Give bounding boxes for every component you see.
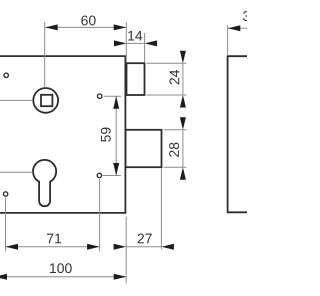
follower circle [33,88,58,113]
dim 24 text [169,70,179,84]
dim 71 right arrow [87,244,100,250]
dim 30 arrow [228,25,241,31]
euro cylinder profile [33,160,56,206]
dim 27 line [126,246,161,248]
dim 24 line [182,63,184,95]
dim 14 text [128,31,142,41]
dim 71 text [47,234,61,244]
dim 59 line [115,96,117,175]
dim 59 extension top [104,95,121,97]
dim 60 text [81,16,95,26]
dim 60 left arrow [45,24,58,30]
cylinder horizontal centerline [0,171,33,173]
dim 28 bottom arrow [180,167,186,180]
dim 28 top arrow [180,117,186,130]
dim 59 text [101,127,111,141]
dim 60 right arrow [114,24,127,30]
case bottom edge [0,212,126,214]
follower vertical extension line [44,22,46,88]
dim 100 text [50,263,72,273]
screw hole bottom-left [3,192,7,196]
dim 14 right arrow [145,40,158,46]
dim 59 top arrow [113,96,119,109]
dim 28 extension bottom [164,166,187,168]
dim 14 line [127,42,145,44]
follower horizontal centerline [0,99,33,101]
dim 24 top arrow [180,51,186,64]
extension line x=5.5 (bottom-left screw) [5,198,7,252]
extension line x=161.4 (below bolt box) [160,169,162,250]
dim 60 line [45,26,126,28]
dim 100 right arrow [114,274,127,280]
screw hole top-right [98,94,102,98]
dim 24 bottom arrow [180,95,186,108]
bolt box (middle protrusion) [126,130,162,167]
dim 14 left arrow [114,40,127,46]
dim 71 left arrow [6,244,19,250]
side view top extension line [227,25,229,56]
dim 27 right arrow [161,244,174,250]
dim 28 line [182,130,184,167]
case right edge (faceplate) [124,56,126,213]
dim 24 extension bottom [147,94,187,96]
screw hole bottom-right [97,173,101,177]
dim 27 left arrow [114,244,127,250]
dim 100 left arrow (cropped) [0,274,7,280]
extension line x=126.3 (top) [125,22,127,63]
dim 30 text (cropped) [243,11,258,21]
dim 59 extension bottom [103,175,121,177]
extension line x=126.2 (below case) [125,217,127,284]
dim 100 line [0,276,126,278]
dim 24 extension top [147,62,187,64]
dim 28 text [169,143,179,157]
dim 59 bottom arrow [113,163,119,176]
screw hole top-left [4,73,8,77]
dim 30 line (cropped at right) [228,27,247,29]
dim 28 extension top [164,129,187,131]
latch box (top protrusion) [127,63,145,95]
dim 27 text [138,234,152,244]
side view outline [228,56,247,212]
extension line x=99.2 (bottom-right screw) [99,179,101,251]
case top edge [0,55,126,57]
extension line x=144.6 [144,33,146,63]
dim 71 line [6,246,100,248]
follower square hole [41,95,52,106]
